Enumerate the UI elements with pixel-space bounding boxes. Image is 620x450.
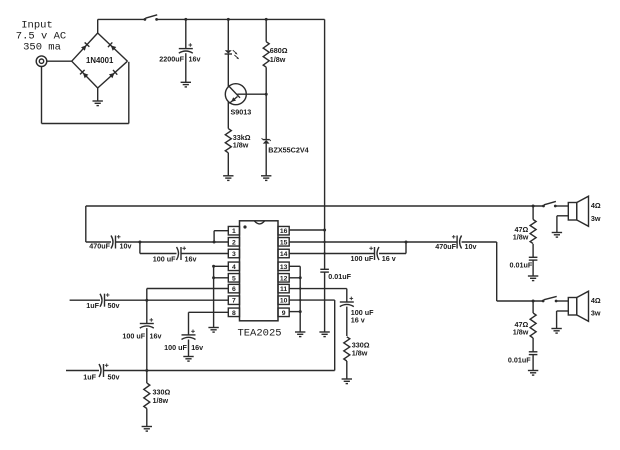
- svg-text:1/8w: 1/8w: [233, 140, 249, 149]
- svg-text:50v: 50v: [108, 301, 120, 310]
- svg-text:16v: 16v: [191, 343, 203, 352]
- svg-text:0.01uF: 0.01uF: [510, 261, 533, 270]
- svg-text:1/8w: 1/8w: [270, 55, 286, 64]
- svg-text:10v: 10v: [120, 242, 132, 251]
- svg-text:1uF: 1uF: [86, 301, 99, 310]
- svg-text:4Ω: 4Ω: [591, 296, 601, 305]
- svg-text:15: 15: [280, 239, 288, 246]
- svg-text:0.01uF: 0.01uF: [328, 272, 351, 281]
- svg-text:16v: 16v: [185, 255, 197, 264]
- svg-text:7: 7: [232, 298, 236, 305]
- svg-text:5: 5: [232, 275, 236, 282]
- svg-text:100 uF: 100 uF: [122, 332, 145, 341]
- svg-text:13: 13: [280, 264, 288, 271]
- svg-text:11: 11: [280, 286, 287, 293]
- svg-text:1uF: 1uF: [83, 373, 96, 382]
- svg-text:3: 3: [232, 251, 236, 258]
- svg-text:470uF: 470uF: [435, 242, 456, 251]
- svg-text:100 uF: 100 uF: [164, 343, 187, 352]
- svg-text:10v: 10v: [465, 242, 477, 251]
- svg-text:TEA2025: TEA2025: [237, 328, 281, 340]
- svg-text:100 uF: 100 uF: [351, 254, 374, 263]
- svg-text:3w: 3w: [591, 309, 601, 318]
- svg-text:16v: 16v: [150, 332, 162, 341]
- svg-text:16v: 16v: [189, 55, 201, 64]
- svg-text:16 v: 16 v: [382, 254, 396, 263]
- svg-text:470uF: 470uF: [89, 242, 110, 251]
- svg-text:9: 9: [282, 310, 286, 317]
- svg-text:1/8w: 1/8w: [513, 232, 529, 241]
- svg-text:0.01uF: 0.01uF: [508, 356, 531, 365]
- svg-text:1: 1: [232, 228, 236, 235]
- svg-text:1/8w: 1/8w: [352, 349, 368, 358]
- svg-text:10: 10: [280, 298, 288, 305]
- svg-text:8: 8: [232, 310, 236, 317]
- svg-text:4: 4: [232, 264, 236, 271]
- svg-text:12: 12: [280, 275, 288, 282]
- svg-text:16 v: 16 v: [351, 316, 365, 325]
- svg-text:16: 16: [280, 228, 288, 235]
- svg-text:50v: 50v: [108, 373, 120, 382]
- svg-text:1/8w: 1/8w: [513, 327, 529, 336]
- svg-text:2200uF: 2200uF: [159, 55, 184, 64]
- svg-text:100 uF: 100 uF: [153, 255, 176, 264]
- svg-text:1/8w: 1/8w: [153, 396, 169, 405]
- svg-text:1N4001: 1N4001: [86, 56, 114, 65]
- svg-text:4Ω: 4Ω: [591, 201, 601, 210]
- svg-text:350 ma: 350 ma: [23, 42, 61, 54]
- svg-text:S9013: S9013: [231, 108, 252, 117]
- svg-text:3w: 3w: [591, 214, 601, 223]
- svg-text:14: 14: [280, 251, 288, 258]
- svg-text:6: 6: [232, 286, 236, 293]
- svg-text:BZX55C2V4: BZX55C2V4: [268, 146, 308, 155]
- svg-text:2: 2: [232, 239, 236, 246]
